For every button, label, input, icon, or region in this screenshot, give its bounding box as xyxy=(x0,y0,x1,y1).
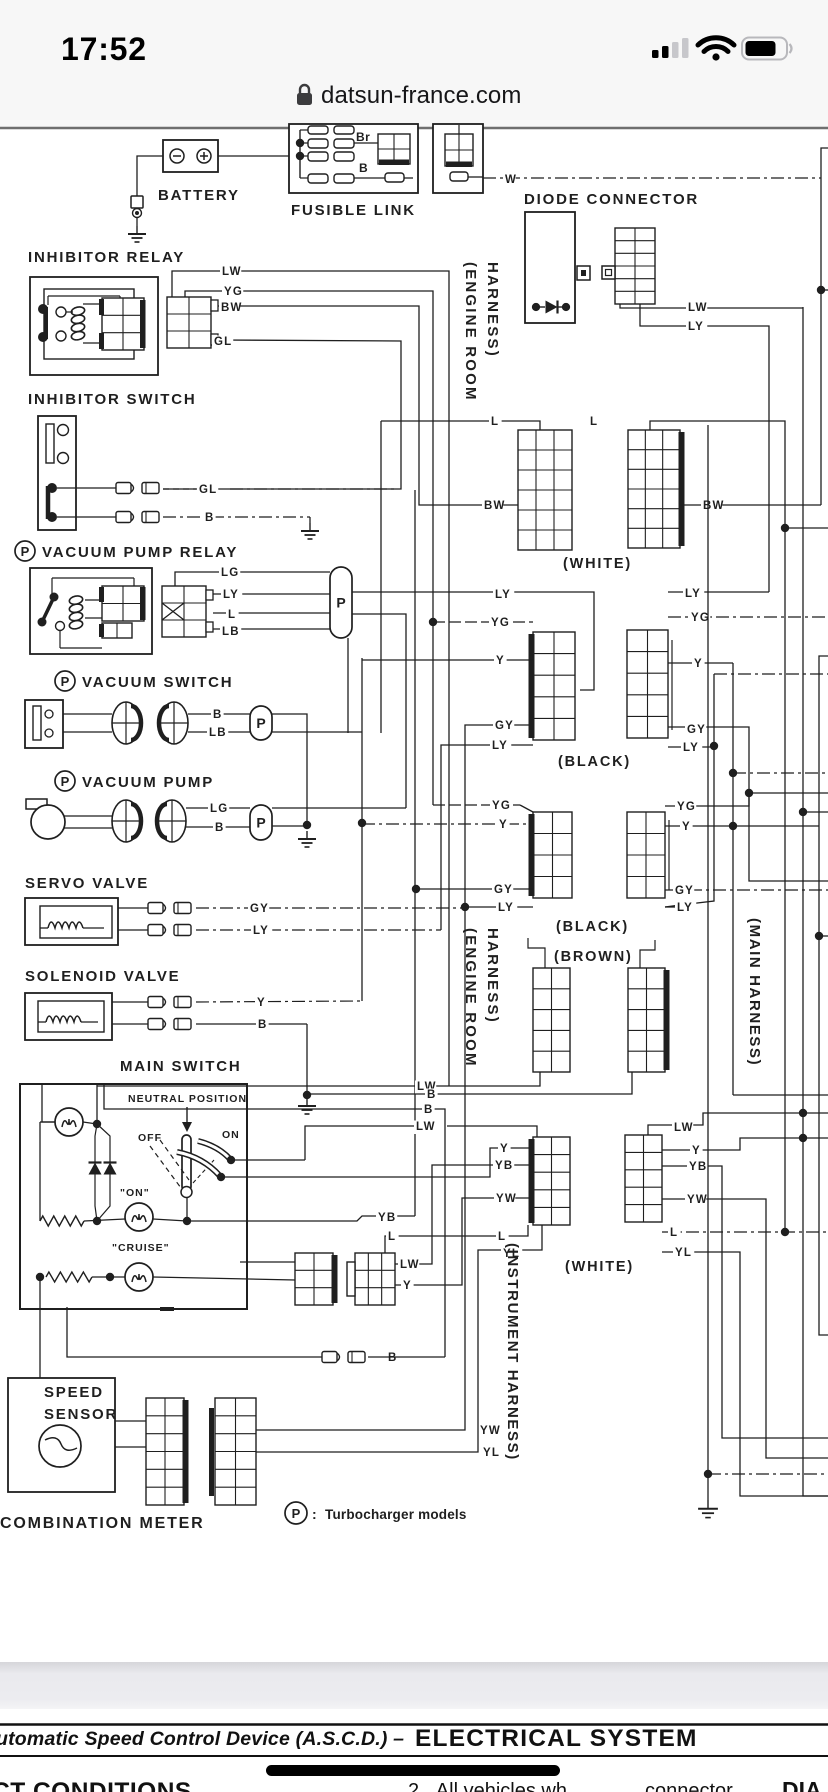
label B riser 2 xyxy=(422,1104,435,1118)
vacuum pump relay grid B xyxy=(99,623,132,638)
svg-text:L: L xyxy=(670,1227,678,1239)
lamp L2 on xyxy=(125,1203,153,1231)
label YG black2 left xyxy=(490,800,511,814)
white connector 1 left xyxy=(518,430,572,550)
connector P2 capsule xyxy=(250,706,272,740)
svg-text:Y: Y xyxy=(496,655,505,667)
svg-text:L: L xyxy=(388,1231,396,1243)
scan page top border xyxy=(0,127,828,130)
label YL instrument right xyxy=(673,1247,694,1261)
inhibitor relay box xyxy=(30,277,158,375)
label L white1 left xyxy=(489,416,502,430)
svg-text:(INSTRUMENT HARNESS): (INSTRUMENT HARNESS) xyxy=(504,1243,521,1461)
label GY black2 right xyxy=(673,885,694,899)
wire LG vacuum pump xyxy=(186,807,250,809)
wire YG net inhibitor relay xyxy=(185,291,433,805)
svg-text:YG: YG xyxy=(491,617,510,629)
wire B vacuum pump xyxy=(186,826,250,828)
node x821 y936 xyxy=(815,932,823,940)
svg-text:VACUUM PUMP: VACUUM PUMP xyxy=(82,774,214,791)
stub GY bus right xyxy=(749,792,828,794)
label Y black2 left xyxy=(497,819,510,833)
servo valve coil xyxy=(40,922,104,928)
wire LW instrument right xyxy=(648,1113,828,1135)
box2 connector grid xyxy=(445,125,473,167)
label COMBINATION METER xyxy=(0,1515,205,1532)
svg-text:YW: YW xyxy=(480,1425,501,1437)
wire L instrument right xyxy=(662,1231,828,1233)
node x733 y773 xyxy=(729,769,737,777)
svg-text:LY: LY xyxy=(495,589,511,601)
arrow neutral position xyxy=(182,1107,192,1132)
box2 fuse xyxy=(450,172,468,181)
wire L from main switch grid xyxy=(385,1225,528,1253)
label L white1 right xyxy=(588,416,601,430)
svg-text:P: P xyxy=(256,815,265,831)
wire B from inhibitor switch xyxy=(57,516,310,518)
svg-text:LY: LY xyxy=(683,742,699,754)
label L instrument left xyxy=(496,1231,509,1245)
svg-text:GY: GY xyxy=(675,885,694,897)
page gap gray band xyxy=(0,1662,828,1709)
vacuum pump oval connector B xyxy=(157,800,186,842)
node lever bottom xyxy=(183,1217,191,1225)
wire bus x802 LW xyxy=(803,307,828,1496)
svg-text:P: P xyxy=(61,774,70,789)
wire Y solenoid xyxy=(112,1001,362,1002)
label LW main switch xyxy=(398,1259,420,1273)
label YG black1 right xyxy=(689,612,710,626)
lamp L1 pilot xyxy=(55,1108,83,1136)
svg-text:B: B xyxy=(215,822,225,834)
ground battery xyxy=(128,226,146,242)
wire GY black2 left xyxy=(416,888,533,890)
label ENGINE ROOM HARNESS top xyxy=(462,262,501,402)
svg-text:"ON": "ON" xyxy=(120,1187,150,1199)
wire Y black1 left xyxy=(362,659,533,661)
label LY diode xyxy=(686,321,707,335)
home indicator xyxy=(266,1765,560,1776)
node fusible link bus B xyxy=(296,152,304,160)
svg-text::: : xyxy=(312,1506,317,1522)
wire L out of P1 to riser x406 xyxy=(352,614,406,808)
node ground bus junction xyxy=(704,1470,712,1478)
combination meter grid A xyxy=(146,1398,189,1505)
wires vacuum switch to connector xyxy=(63,714,112,732)
svg-text:B: B xyxy=(427,1089,437,1101)
label YW instrument right xyxy=(685,1194,708,1208)
svg-text:B: B xyxy=(258,1019,268,1031)
brown connector left xyxy=(533,968,570,1072)
svg-text:GY: GY xyxy=(495,720,514,732)
label BROWN xyxy=(554,949,633,965)
iOS status bar background xyxy=(0,0,828,127)
label W xyxy=(503,174,517,188)
label YL meter xyxy=(481,1447,502,1461)
svg-text:ON: ON xyxy=(222,1129,240,1141)
label INHIBITOR RELAY xyxy=(28,249,185,266)
wire arc1 out xyxy=(231,1159,305,1161)
svg-text:YW: YW xyxy=(687,1194,708,1206)
svg-text:GL: GL xyxy=(199,484,217,496)
svg-text:YG: YG xyxy=(677,801,696,813)
label WHITE 2 xyxy=(565,1259,634,1275)
main switch bottom tick xyxy=(160,1307,174,1311)
svg-text:LY: LY xyxy=(688,321,704,333)
wire arc2 out xyxy=(221,1148,533,1177)
connector P3 capsule xyxy=(250,805,272,840)
label Y black2 right xyxy=(680,821,693,835)
svg-text:Y: Y xyxy=(682,821,691,833)
label LW diode xyxy=(686,302,708,316)
label Y black1 left xyxy=(494,655,507,669)
node Y riser junction xyxy=(358,819,366,827)
wire Y bus to x819 xyxy=(733,825,819,827)
wire lamp1 feed xyxy=(42,1084,55,1122)
wire YL instrument right xyxy=(662,1252,828,1496)
label VACUUM SWITCH xyxy=(55,671,233,691)
label MAIN HARNESS xyxy=(746,918,763,1066)
label ON lamp xyxy=(120,1187,150,1199)
node r2 left xyxy=(36,1273,44,1281)
wire LY servo xyxy=(118,929,441,931)
label LY black2 left xyxy=(0,0,1,1)
svg-text:L: L xyxy=(228,609,236,621)
svg-text:B: B xyxy=(388,1352,398,1364)
switch arc contact 1 xyxy=(198,1141,230,1159)
wifi icon xyxy=(698,38,734,61)
brown connector left top stub xyxy=(528,938,545,968)
wire bus x708 xyxy=(707,425,709,1474)
speed sensor box xyxy=(8,1378,115,1492)
label B solenoid xyxy=(256,1019,269,1033)
label LY black1 left lower xyxy=(490,740,511,754)
speed sensor element xyxy=(39,1425,81,1467)
svg-text:NEUTRAL POSITION: NEUTRAL POSITION xyxy=(128,1093,247,1105)
wire W net xyxy=(468,177,821,178)
wire lamp3 row out xyxy=(153,1277,295,1280)
svg-text:P: P xyxy=(21,544,30,559)
svg-text:P: P xyxy=(61,674,70,689)
main switch connector grid left xyxy=(295,1253,338,1305)
label LG vpr xyxy=(219,567,240,581)
label LW riser 2 xyxy=(414,1121,436,1135)
vacuum pump relay wires internal xyxy=(52,578,134,648)
fuse row3 col1 xyxy=(308,152,328,161)
vacuum pump relay external grid with X xyxy=(162,586,213,637)
instrument connector right xyxy=(625,1135,662,1222)
diode D2 xyxy=(89,1163,102,1175)
svg-text:SPEED: SPEED xyxy=(44,1384,104,1401)
brown connector right top stub xyxy=(640,940,655,968)
wire battery negative to ground xyxy=(137,156,163,196)
svg-text:LW: LW xyxy=(400,1259,420,1271)
node LY junction x714 xyxy=(710,742,718,750)
wire P2 out bottom xyxy=(272,731,362,733)
svg-text:HARNESS): HARNESS) xyxy=(484,262,501,358)
wire Y from main switch grid xyxy=(395,1198,533,1285)
svg-text:ELECTRICAL SYSTEM: ELECTRICAL SYSTEM xyxy=(415,1725,698,1752)
label GY servo xyxy=(248,903,269,917)
label BLACK 1 xyxy=(558,754,631,770)
svg-text:connector: connector xyxy=(645,1780,733,1792)
stub W bus right xyxy=(821,289,828,291)
wire B riser x445 xyxy=(104,1084,445,1357)
connector pair B bottom xyxy=(322,1352,365,1363)
label BLACK 2 xyxy=(556,919,629,935)
label WHITE 1 xyxy=(563,556,632,572)
label LB vacuum switch xyxy=(207,727,228,741)
label LY black2 right xyxy=(675,902,696,916)
ground vacuum pump xyxy=(298,831,316,847)
switch lever xyxy=(181,1135,192,1198)
connector P1 capsule xyxy=(330,567,352,638)
node r2 right xyxy=(106,1273,114,1281)
label NEUTRAL POSITION xyxy=(128,1093,247,1105)
label B switch xyxy=(203,512,216,526)
wire main switch left riser to speed sensor xyxy=(39,1277,41,1378)
wire lever to node xyxy=(186,1197,188,1221)
wire LW from diode grid xyxy=(620,304,803,308)
wire lamp1 to node xyxy=(83,1122,97,1124)
black connector 1 left xyxy=(529,632,576,740)
wire GY black1 right xyxy=(668,727,828,881)
wire GY black2 right xyxy=(665,889,828,891)
wire LY black1 right xyxy=(668,591,769,593)
svg-text:SENSOR: SENSOR xyxy=(44,1406,118,1423)
svg-text:LG: LG xyxy=(221,567,239,579)
wire YB instrument right xyxy=(662,1166,828,1438)
connector pair solenoid Y xyxy=(148,997,191,1008)
svg-text:Br: Br xyxy=(356,130,370,144)
wire GL from inhibitor switch xyxy=(57,487,116,489)
label Y black1 right xyxy=(692,658,705,672)
connector pair servo LY xyxy=(148,925,191,936)
svg-text:(BLACK): (BLACK) xyxy=(558,754,631,770)
node Y black2 junction xyxy=(729,822,737,830)
diode box right tab xyxy=(577,266,590,280)
fuse row1 col2 xyxy=(334,126,354,134)
label B fusible xyxy=(359,161,368,175)
wire L white1 left xyxy=(381,421,540,430)
wire r1 riser xyxy=(40,1122,55,1221)
wire L vpr xyxy=(213,612,330,614)
svg-text:YL: YL xyxy=(675,1247,692,1259)
wire B solenoid xyxy=(112,1023,307,1025)
wire box to grid row1 xyxy=(240,1261,295,1263)
diode grid left tab xyxy=(602,266,615,279)
label L instrument right xyxy=(668,1227,681,1241)
svg-text:GY: GY xyxy=(494,884,513,896)
node servo riser junction xyxy=(461,903,469,911)
wire LY black1 right lower xyxy=(668,746,714,748)
stub x821 right xyxy=(819,935,828,937)
label OFF xyxy=(138,1132,162,1144)
label GY black2 left xyxy=(492,884,513,898)
wire LY out of P1 xyxy=(352,592,594,690)
wire YW instrument right xyxy=(662,1199,828,1458)
wire Y to black pair 2 xyxy=(362,823,533,825)
wire YG to black1 left xyxy=(433,621,533,623)
label INHIBITOR SWITCH xyxy=(28,391,197,408)
vacuum pump relay grid A xyxy=(99,586,146,621)
inhibitor relay wires internal xyxy=(48,296,120,343)
svg-text:VACUUM PUMP RELAY: VACUUM PUMP RELAY xyxy=(42,544,238,561)
main switch connector grid right xyxy=(347,1253,395,1305)
label BW relay xyxy=(219,302,243,316)
label YG relay xyxy=(222,286,243,300)
wire B to ground xyxy=(309,517,311,523)
svg-text:LB: LB xyxy=(222,626,240,638)
label YB instrument left xyxy=(493,1160,514,1174)
svg-text:(BLACK): (BLACK) xyxy=(556,919,629,935)
lever dashed off position xyxy=(150,1140,189,1188)
black connector 2 left xyxy=(529,812,573,898)
svg-text:(ENGINE ROOM: (ENGINE ROOM xyxy=(462,262,479,402)
svg-text:P: P xyxy=(336,595,345,611)
label YG black1 left xyxy=(489,617,510,631)
svg-text:LY: LY xyxy=(223,589,239,601)
svg-text:B: B xyxy=(205,512,215,524)
label Y main switch xyxy=(401,1280,414,1294)
wires vacuum pump to connector xyxy=(64,816,112,828)
label LY servo xyxy=(251,925,272,939)
svg-text:LY: LY xyxy=(498,902,514,914)
label SENSOR xyxy=(44,1406,118,1423)
svg-text:BW: BW xyxy=(221,302,243,314)
svg-text:GY: GY xyxy=(687,724,706,736)
svg-text:LY: LY xyxy=(492,740,508,752)
ground main harness xyxy=(698,1474,718,1518)
svg-text:YB: YB xyxy=(378,1212,396,1224)
svg-text:YG: YG xyxy=(691,612,710,624)
wire bus x715 xyxy=(665,674,714,907)
fuse row2 col2 xyxy=(334,139,354,148)
footer rule top xyxy=(0,1723,828,1726)
wire B bottom to riser xyxy=(368,1356,445,1358)
label B bottom xyxy=(386,1352,399,1366)
svg-text:L: L xyxy=(491,416,499,428)
solenoid valve coil xyxy=(38,1016,98,1022)
inhibitor relay contact terminals xyxy=(56,307,66,341)
svg-text:YG: YG xyxy=(492,800,511,812)
svg-text:LY: LY xyxy=(677,902,693,914)
combination meter grid B xyxy=(209,1398,256,1505)
connector pair solenoid B xyxy=(148,1019,191,1030)
lamp L3 cruise xyxy=(125,1263,153,1291)
servo valve body xyxy=(25,898,118,945)
node fusible link bus A xyxy=(296,139,304,147)
brown connector right xyxy=(628,968,670,1072)
fusible link internal bus xyxy=(300,130,308,178)
label VACUUM PUMP RELAY xyxy=(15,541,238,561)
label GL switch xyxy=(197,484,218,498)
vacuum switch body xyxy=(25,700,63,748)
svg-text:W: W xyxy=(505,174,517,186)
label LB vpr xyxy=(220,626,241,640)
label LW relay xyxy=(220,266,242,280)
svg-text:YG: YG xyxy=(224,286,243,298)
wire B brown to ground bus xyxy=(307,1072,632,1094)
wire P3 out top riser x406 xyxy=(272,807,406,809)
label B vacuum pump xyxy=(213,822,226,836)
vacuum pump oval connector A xyxy=(112,800,141,842)
fuse row4 col1 xyxy=(308,174,328,183)
svg-text:BATTERY: BATTERY xyxy=(158,187,240,204)
inhibitor relay grid xyxy=(99,298,146,350)
wire B row xyxy=(354,177,413,179)
svg-text:utomatic Speed Control Device: utomatic Speed Control Device (A.S.C.D.)… xyxy=(0,1728,404,1750)
svg-text:BW: BW xyxy=(703,500,725,512)
label YB main switch xyxy=(376,1212,397,1226)
wire Br to connector xyxy=(354,142,378,144)
label LY vpr xyxy=(221,589,242,603)
label BW white1 right xyxy=(701,500,725,514)
wire r2 to lamp3 xyxy=(92,1276,125,1278)
stub x733 y773 right xyxy=(733,772,828,774)
wire B solenoid down to ground xyxy=(306,1024,308,1095)
wire bus x733 upper xyxy=(732,663,734,826)
svg-text:(WHITE): (WHITE) xyxy=(563,556,632,572)
wire BW net inhibitor relay xyxy=(218,306,518,505)
label SOLENOID VALVE xyxy=(25,968,181,985)
svg-text:(BROWN): (BROWN) xyxy=(554,949,633,965)
label ON position xyxy=(222,1129,240,1141)
node r1 right xyxy=(93,1217,101,1225)
ground solenoid xyxy=(298,1098,316,1114)
vacuum pump relay contact xyxy=(38,593,65,631)
node W bus y290 xyxy=(817,286,825,294)
wire LW net inhibitor relay xyxy=(172,271,449,1086)
node GY black2 junction xyxy=(412,885,420,893)
label CRUISE xyxy=(112,1242,170,1254)
fuse row1 col1 xyxy=(308,126,328,134)
fuse row3 col2 xyxy=(334,152,354,161)
inhibitor switch body xyxy=(38,416,76,530)
wire LB vacuum switch xyxy=(188,731,250,733)
svg-text:Y: Y xyxy=(257,997,266,1009)
wire LW instrument top xyxy=(305,1126,537,1160)
wire BW white1 right xyxy=(680,504,821,506)
label L vpr xyxy=(226,609,239,623)
vacuum switch oval connector A xyxy=(112,702,141,744)
label YB instrument right xyxy=(687,1161,708,1175)
vacuum pump relay box xyxy=(30,568,152,654)
wire LY vpr xyxy=(213,593,330,595)
svg-text:LB: LB xyxy=(209,727,227,739)
svg-text:P: P xyxy=(292,1506,301,1521)
wire LW brown to main switch xyxy=(97,1072,540,1086)
svg-text:GY: GY xyxy=(250,903,269,915)
wire P2 out top xyxy=(272,714,307,825)
label Br xyxy=(356,130,370,144)
label INSTRUMENT HARNESS xyxy=(504,1243,521,1461)
svg-text:BW: BW xyxy=(484,500,506,512)
svg-text:"CRUISE": "CRUISE" xyxy=(112,1242,170,1254)
connector pair GL xyxy=(116,483,159,494)
svg-text:DIODE CONNECTOR: DIODE CONNECTOR xyxy=(524,191,699,208)
black connector 2 right xyxy=(627,812,669,898)
wire bus x819 xyxy=(819,656,828,1335)
svg-text:(MAIN HARNESS): (MAIN HARNESS) xyxy=(746,918,763,1066)
stub x802 right xyxy=(803,811,828,813)
inhibitor relay contact blade xyxy=(38,304,48,342)
wire r1 to lamp2 xyxy=(84,1219,125,1221)
svg-text:INHIBITOR RELAY: INHIBITOR RELAY xyxy=(28,249,185,266)
svg-text:SOLENOID VALVE: SOLENOID VALVE xyxy=(25,968,181,985)
vacuum switch oval connector B xyxy=(159,702,188,744)
switch arc contact 2 xyxy=(177,1152,220,1176)
